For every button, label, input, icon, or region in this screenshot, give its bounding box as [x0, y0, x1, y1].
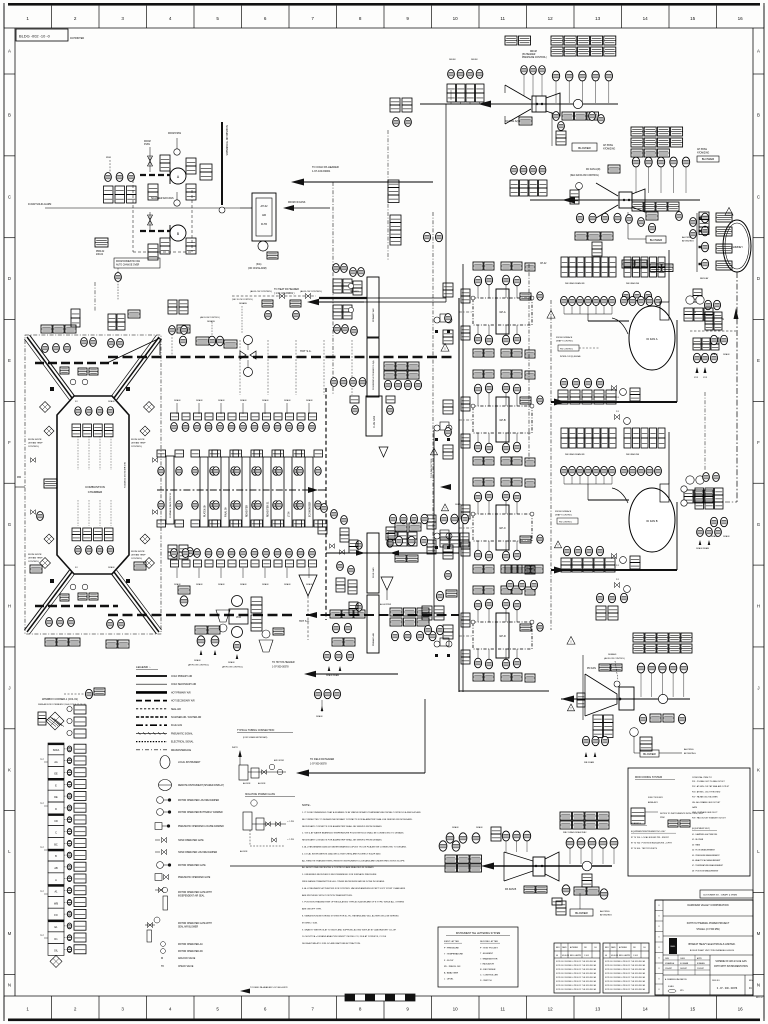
svg-text:(PA HEADER: (PA HEADER: [522, 53, 536, 56]
svg-text:DAMODAR VALLEY CORPORATION: DAMODAR VALLEY CORPORATION: [687, 904, 728, 907]
legend line PNEUMATIC SIGNAL: [136, 732, 167, 734]
right row-letter strip: [752, 28, 754, 996]
svg-text:97 70 760 : POSITION INDICAT: 97 70 760 : POSITION INDICATORS + DPTR: [631, 842, 672, 845]
flue gas upper instruments: [352, 406, 359, 415]
svg-text:13: 13: [595, 1007, 601, 1012]
svg-text:PNEUMATIC SIGNAL: PNEUMATIC SIGNAL: [171, 732, 194, 735]
svg-text:AH PRSG: AH PRSG: [603, 144, 613, 147]
ID fan A outlet duct: [660, 302, 669, 320]
svg-text:C.S.R: C.S.R: [584, 955, 589, 957]
roof line risers: [239, 340, 241, 395]
svg-text:DRAIN: DRAIN: [306, 399, 313, 402]
svg-text:(NO CFM ALARM): (NO CFM ALARM): [248, 267, 267, 270]
svg-text:ARE ON/OFF TYPE.: ARE ON/OFF TYPE.: [302, 908, 322, 911]
svg-text:T : TEMPERATURE: T : TEMPERATURE: [444, 953, 463, 956]
svg-text:S : SWITCH: S : SWITCH: [480, 980, 492, 982]
svg-text:3: 3: [121, 16, 124, 21]
PA fan casing: [533, 857, 545, 876]
legend symbol MOTOR OPERATED GATE: [157, 862, 164, 869]
svg-text:AIR FILTER: AIR FILTER: [274, 759, 285, 762]
svg-text:DRAIN: DRAIN: [240, 399, 247, 402]
svg-text:ECONOMISER: ECONOMISER: [310, 501, 312, 517]
svg-text:P09 : PAS OUTLET STANDB: P09 : PAS OUTLET STANDBY OUTLET: [692, 816, 727, 819]
left riser tags: [390, 215, 401, 223]
svg-text:SEAL AIR: SEAL AIR: [171, 708, 181, 711]
svg-text:6: 6: [264, 1007, 267, 1012]
gas duct instrument cluster upper: [384, 362, 395, 370]
instrument cluster PRI tags top-left: [95, 238, 108, 247]
svg-text:AH DRN: AH DRN: [258, 782, 266, 785]
svg-text:11: 11: [500, 16, 505, 21]
FD fan A duct: [420, 103, 618, 105]
svg-text:SCANNER AIR / IGNITER AIR: SCANNER AIR / IGNITER AIR: [171, 716, 202, 719]
svg-text:FD FAN A(C): FD FAN A(C): [505, 119, 520, 123]
PA fan suction duct: [230, 865, 481, 867]
svg-text:ELECTRICAL SIGNAL: ELECTRICAL SIGNAL: [171, 741, 194, 744]
svg-text:SECOND LETTER: SECOND LETTER: [480, 941, 498, 943]
svg-text:CONTROL): CONTROL): [131, 558, 142, 560]
warning triangles near GP-B: [441, 344, 449, 352]
svg-text:ALL REMOTE TRANSMITTERS, REMOT: ALL REMOTE TRANSMITTERS, REMOTE INSTRUME…: [302, 859, 405, 862]
svg-text:PAT-DAT: PAT-DAT: [700, 277, 709, 280]
svg-text:1: 1: [26, 1007, 29, 1012]
svg-text:NECESSARY CONTACTS FOR ALARM/T: NECESSARY CONTACTS FOR ALARM/TRIP SHALL …: [302, 839, 383, 842]
GP-B top bubbles: [474, 384, 481, 394]
svg-text:DRAIN: DRAIN: [306, 583, 313, 586]
svg-text:TO FIELD PA HEADER: TO FIELD PA HEADER: [310, 758, 335, 761]
revision history table: [554, 943, 600, 993]
compartment instrument: [64, 913, 67, 915]
svg-text:C : CONTROLLER: C : CONTROLLER: [480, 975, 498, 977]
outer border frame: [8, 3, 760, 6]
svg-text:2: 2: [74, 1007, 77, 1012]
GP-D bottom tag grids: [473, 673, 483, 681]
svg-text:F: F: [8, 440, 11, 445]
svg-text:CHKD: CHKD: [680, 958, 686, 960]
hot secondary air heavy line: [108, 356, 456, 358]
svg-text:GATE: GATE: [692, 806, 698, 809]
chimney inlet instruments: [696, 213, 698, 272]
upper area vertical chain line: [432, 212, 434, 553]
svg-text:DRAIN: DRAIN: [240, 583, 247, 586]
air preheater module GP-D: [496, 613, 509, 658]
svg-text:ID FAN B: ID FAN B: [646, 519, 657, 523]
long solid line to alarm: [45, 207, 240, 209]
compartment instrument: [64, 807, 67, 809]
bottom column-number strip: [4, 995, 764, 997]
svg-text:AH PRSG: AH PRSG: [600, 910, 610, 913]
svg-text:G: G: [757, 522, 761, 527]
GP-A right link tags: [520, 293, 531, 300]
svg-text:DESANS: DESANS: [608, 653, 617, 656]
svg-text:3. ALL FAN BEARING AND AT WATE: 3. ALL FAN BEARING AND AT WATER BEARING …: [302, 846, 407, 849]
svg-text:WINDBOX CORNER-1 (COL #1): WINDBOX CORNER-1 (COL #1): [42, 698, 78, 701]
svg-text:1-97-300-00378: 1-97-300-00378: [310, 764, 327, 766]
svg-text:CONTROL): CONTROL): [28, 446, 39, 448]
svg-text:COMCOAL ITEM TO: COMCOAL ITEM TO: [692, 776, 712, 779]
windbox top bubbles: [42, 344, 49, 353]
ID fan B lower tags: [596, 593, 603, 602]
svg-text:6. ALL PNEUMATIC ACTUATORS FOR: 6. ALL PNEUMATIC ACTUATORS FOR CONTROL V…: [302, 887, 406, 890]
svg-text:3 - 97 - 300 - 00376: 3 - 97 - 300 - 00376: [717, 988, 738, 990]
svg-text:9. GRAVITY METER IS AT TO INLE: 9. GRAVITY METER IS AT TO INLET AND SUPP…: [302, 928, 397, 931]
svg-text:ARE PROVIDED WITH POSITION TRA: ARE PROVIDED WITH POSITION TRANSMITTERS.: [302, 894, 353, 897]
ash hopper small units: [216, 610, 230, 622]
svg-text:DRAIN: DRAIN: [452, 826, 459, 829]
svg-text:1-97-300-00378: 1-97-300-00378: [272, 667, 289, 669]
svg-text:NOTE NO. REVISED & PRGS DT. TH: NOTE NO. REVISED & PRGS DT. THE DRG REV …: [556, 988, 597, 991]
svg-text:TO FEED PA HEADER 1-97-300-00: TO FEED PA HEADER 1-97-300-00378: [250, 986, 288, 989]
svg-text:FO: FO: [75, 401, 78, 403]
svg-text:REMOTE INSTRUMENT (SHARED DISP: REMOTE INSTRUMENT (SHARED DISPLAY): [178, 784, 224, 787]
svg-text:BHARAT HEAVY ELECTRICALS LIMIT: BHARAT HEAVY ELECTRICALS LIMITED.: [689, 943, 736, 946]
svg-text:4: 4: [169, 1007, 172, 1012]
svg-text:PNEUMATIC OPERATED LOUVRE DAMP: PNEUMATIC OPERATED LOUVRE DAMPER: [178, 825, 224, 828]
svg-text:5. UNDERNED RECEIVER IS RECOMM: 5. UNDERNED RECEIVER IS RECOMMENDED FOR …: [302, 873, 377, 876]
PA fan diffuser: [545, 852, 559, 881]
svg-text:DRAIN DRAIN: DRAIN DRAIN: [696, 547, 710, 550]
FD fan B tag rows: [631, 127, 643, 136]
backpass bottom instrument row: [171, 549, 178, 558]
BHEL logo: [669, 938, 677, 954]
title block number row: [709, 975, 711, 995]
PA fan lower cluster: [562, 885, 570, 895]
svg-text:H: H: [8, 604, 11, 609]
svg-text:SIMILAR FOR CORNERS 2,3&4 (COL: SIMILAR FOR CORNERS 2,3&4 (COLS #2,#3,#4…: [38, 703, 86, 706]
svg-text:10/05/97: 10/05/97: [680, 968, 687, 970]
backpass bottom drain labels: [176, 568, 178, 578]
svg-text:I : TRANSMITTER: I : TRANSMITTER: [480, 957, 498, 960]
compartment instrument: [64, 772, 67, 774]
svg-text:A: A: [8, 49, 11, 54]
svg-text:REHEATER: REHEATER: [246, 505, 249, 517]
svg-text:B: B: [757, 113, 760, 118]
svg-text:L : LEVEL: L : LEVEL: [444, 979, 454, 981]
ID fan B lower bubble row: [554, 541, 561, 548]
GP-D top tag grids: [473, 586, 483, 594]
svg-text:TO HEAT PA HEADER: TO HEAT PA HEADER: [274, 288, 299, 291]
svg-text:DATE: DATE: [611, 946, 616, 949]
svg-text:TK: TK: [161, 965, 164, 968]
svg-text:J: J: [757, 685, 759, 690]
windbox top tags: [41, 325, 52, 333]
svg-text:NOTE NO. REVISED & PRGS DT. TH: NOTE NO. REVISED & PRGS DT. THE DRG REV …: [605, 980, 646, 983]
svg-text:A : ANALYSER: A : ANALYSER: [444, 971, 459, 974]
compartment instrument: [64, 866, 67, 868]
svg-text:I : INDICATOR: I : INDICATOR: [480, 963, 494, 966]
svg-text:DRG NO.: DRG NO.: [712, 980, 721, 982]
fan A tags: [160, 155, 170, 163]
svg-text:4. LOCAL INSTRUMENTS (GAUGES &: 4. LOCAL INSTRUMENTS (GAUGES & SWITCHES)…: [302, 852, 381, 855]
svg-text:1. IT IS RECOMMENDED THAT A N: 1. IT IS RECOMMENDED THAT A NUMBER OF AT…: [302, 811, 421, 814]
burner nozzle bubbles top inside: [75, 407, 81, 416]
legend line SEAL AIR: [136, 708, 167, 710]
FD fan B diffuser: [632, 189, 645, 212]
svg-text:OIL: OIL: [54, 950, 59, 953]
FD fan B left cluster: [511, 166, 518, 175]
FD fan A bubble row: [552, 71, 559, 81]
svg-text:(AH FLOW CONTROL): (AH FLOW CONTROL): [300, 290, 322, 293]
legend symbol remote instrument: [159, 780, 172, 791]
upper corner tag rows: [74, 705, 86, 714]
svg-text:K: K: [757, 767, 760, 772]
svg-text:21/05/97: 21/05/97: [697, 968, 704, 970]
compartment instrument: [64, 795, 67, 797]
GP-D top bubbles: [474, 600, 481, 610]
svg-text:PD : PRESS. DIF: PD : PRESS. DIF: [444, 966, 461, 968]
corner stack bottom hopper: [50, 955, 62, 967]
svg-text:8: 8: [359, 16, 362, 21]
svg-text:!: !: [434, 451, 435, 455]
FD fan B bubbles: [632, 157, 639, 167]
blower box B: [646, 236, 666, 243]
regenerative preheater lower assembly: [367, 533, 379, 593]
svg-text:FROM IGNTR: FROM IGNTR: [131, 439, 145, 441]
diagonal junction dots: [50, 387, 54, 391]
svg-text:!: !: [445, 347, 446, 351]
svg-text:FLUE GAS: FLUE GAS: [372, 567, 375, 578]
legend line COLD SECONDARY AIR: [136, 683, 167, 685]
svg-text:15: 15: [690, 16, 696, 21]
PA fan discharge bubbles: [566, 838, 574, 848]
ID fan A bypass dampers: [611, 385, 616, 390]
svg-text:APPD: APPD: [697, 957, 703, 960]
GP-C top bubbles: [474, 492, 481, 502]
svg-text:02 : BLOWER: 02 : BLOWER: [692, 839, 704, 841]
svg-text:DRUM: DRUM: [449, 59, 456, 61]
svg-text:AIRLOCK VALVE: AIRLOCK VALVE: [178, 957, 196, 960]
svg-text:DRAIN: DRAIN: [723, 353, 730, 356]
svg-text:FUNCTION KEY: FUNCTION KEY: [648, 797, 664, 799]
svg-text:DESANS: DESANS: [207, 320, 216, 323]
svg-text:NOTE NO. REVISED & PRGS DT. TH: NOTE NO. REVISED & PRGS DT. THE DRG REV …: [556, 964, 597, 967]
svg-text:DRUM: DRUM: [530, 51, 537, 53]
svg-text:PATH WITH INSTRUMENTATION: PATH WITH INSTRUMENTATION: [714, 965, 748, 968]
PD fan cone: [585, 674, 617, 716]
svg-text:DRAIN/INTERFACE: DRAIN/INTERFACE: [171, 749, 192, 752]
legend symbol PNEUMATIC OPERATED LOUVRE DAMPER: [155, 823, 162, 830]
svg-text:GN9 : FURNACE GEN.: GN9 : FURNACE GEN. DUCT: [692, 811, 718, 814]
ID fan B discharge heavy duct: [551, 569, 677, 571]
from FD fans line: [240, 207, 252, 209]
svg-text:D: D: [8, 276, 11, 281]
svg-text:AA: AA: [54, 761, 58, 764]
svg-text:GP-A: GP-A: [499, 310, 506, 314]
svg-text:BOILER PLANT UNIT: TIRUCHIRAPA: BOILER PLANT UNIT: TIRUCHIRAPALLI-620014: [690, 949, 735, 952]
burner tag pairs top inside: [72, 424, 81, 430]
svg-text:DE: DE: [54, 796, 58, 799]
PD fan left tag grid: [593, 715, 603, 723]
GP-A side tags: [461, 289, 470, 296]
PD fan blower box: [630, 728, 639, 737]
svg-text:NECESSARY CONTACTS FOR ALARM/T: NECESSARY CONTACTS FOR ALARM/TRIP SHALL …: [302, 825, 383, 828]
backpass main gas chain line: [157, 489, 311, 491]
legend symbol HAND OPERATED LOUVRE DAMPER: [155, 851, 160, 853]
svg-text:TO ID FAN SUCTION: TO ID FAN SUCTION: [430, 458, 433, 478]
svg-text:13: 13: [595, 16, 601, 21]
riser tags: [200, 164, 212, 172]
GP-C bypass chain loop: [473, 514, 532, 541]
GP-D bypass chain loop: [473, 622, 532, 649]
svg-text:BC: BC: [54, 843, 58, 846]
left-edge tag column: [443, 283, 453, 290]
legend line FLUE GAS: [136, 724, 167, 726]
title block owner row: [663, 915, 753, 917]
svg-text:C: C: [757, 194, 760, 199]
svg-text:PRM: PRM: [660, 817, 665, 819]
svg-text:12: 12: [548, 1007, 554, 1012]
GP-D bottom bubbles: [474, 658, 481, 668]
svg-text:3: 3: [121, 1007, 124, 1012]
svg-text:GN : ALLOWABLE GEN OUTLET: GN : ALLOWABLE GEN OUTLET: [692, 801, 721, 804]
svg-text:FROM: FROM: [144, 141, 151, 143]
svg-text:CP-42: CP-42: [540, 263, 547, 265]
title block left vertical strip: [655, 899, 663, 901]
hot SA line instruments: [177, 325, 190, 333]
chimney riser chain line: [736, 272, 738, 502]
PLATEN SH inlet/outlet instruments: [192, 467, 198, 476]
burner nozzle bubbles bottom inside: [75, 546, 81, 555]
svg-text:MOTOR OPERATED GATE: MOTOR OPERATED GATE: [178, 864, 206, 867]
svg-text:M: M: [161, 957, 163, 960]
svg-text:INSTRUMENT TAG LETTERING SYSTE: INSTRUMENT TAG LETTERING SYSTEM: [456, 932, 500, 935]
burner tilt cluster below windbox: [195, 626, 207, 634]
svg-text:NOTE NO. REVISED & PRGS DT. TH: NOTE NO. REVISED & PRGS DT. THE DRG REV …: [556, 972, 597, 975]
title block project rows: [663, 935, 753, 937]
PA fan left cluster tags: [445, 855, 457, 863]
drawing number box: [16, 29, 68, 41]
legend line ELECTRICAL SIGNAL: [136, 741, 167, 743]
svg-text:R : RECORDER: R : RECORDER: [480, 969, 496, 971]
svg-text:DESANS: DESANS: [239, 302, 248, 305]
spray water cluster lower: [337, 562, 344, 571]
svg-text:DRAIN: DRAIN: [711, 353, 718, 356]
svg-text:FIRST LETTER: FIRST LETTER: [444, 941, 459, 943]
svg-text:SOFA: SOFA: [53, 749, 60, 752]
GP-A top bubbles: [474, 276, 481, 286]
svg-text:MOD CODING SYSTEM: MOD CODING SYSTEM: [635, 776, 662, 779]
furnace right upper tags: [168, 300, 177, 307]
svg-text:FROM IGNTR: FROM IGNTR: [28, 439, 42, 441]
svg-text:REGENERATIVE PREHEATER G-D(A): REGENERATIVE PREHEATER G-D(A): [372, 360, 375, 390]
air preheater module GP-A: [496, 289, 509, 334]
svg-text:REV. & APPR: REV. & APPR: [570, 954, 582, 957]
svg-text:PLATEN SH: PLATEN SH: [204, 504, 207, 517]
svg-text:A. DRAWING VALIDATION: A. DRAWING VALIDATION: [665, 978, 687, 981]
svg-text:!: !: [571, 640, 572, 644]
legend miscellaneous small symbols: [161, 942, 166, 947]
svg-text:04 : FLOW MEASUREMENT: 04 : FLOW MEASUREMENT: [692, 849, 716, 852]
svg-text:MOTOR OPERATED GATE WITH: MOTOR OPERATED GATE WITH: [178, 891, 212, 894]
svg-text:FO: FO: [54, 914, 57, 917]
GP-B top tag grids: [473, 370, 483, 378]
svg-text:V.RAMESH: V.RAMESH: [665, 962, 675, 965]
svg-text:DRAFT CONTROL: DRAFT CONTROL: [556, 340, 574, 343]
hot SA booster fan: [240, 351, 246, 359]
burner tag pairs bottom inside: [72, 528, 81, 534]
svg-text:16: 16: [738, 16, 744, 21]
corner firing diamond: [46, 712, 64, 730]
svg-text:F: F: [757, 440, 760, 445]
windbox left inlet stubs: [15, 486, 25, 488]
FD fan A flow element: [573, 99, 582, 108]
svg-text:DRAIN: DRAIN: [284, 583, 291, 586]
svg-text:CD: CD: [54, 820, 58, 823]
svg-text:7. POSITION TRANSMITTER OF REG: 7. POSITION TRANSMITTER OF REGULATING TY…: [302, 901, 405, 904]
svg-text:BLOWER: BLOWER: [702, 157, 715, 161]
chimney: [723, 220, 751, 272]
svg-text:ISOLATING POWER CLASS: ISOLATING POWER CLASS: [245, 793, 275, 796]
svg-text:05.06.98: 05.06.98: [611, 955, 618, 957]
flue gas outlet cluster: [389, 514, 396, 523]
svg-text:NOTE NO. REVISED & PRGS DT. TH: NOTE NO. REVISED & PRGS DT. THE DRG REV …: [605, 984, 646, 987]
svg-text:SCANNER AIR FANS: SCANNER AIR FANS: [151, 197, 174, 200]
ID fan B top tag stacks: [561, 428, 568, 438]
svg-text:BY BHEL / SUB.: BY BHEL / SUB.: [302, 922, 318, 924]
isolating power class diagram: [251, 800, 257, 806]
svg-text:(STEAM TEMP: (STEAM TEMP: [28, 557, 43, 560]
svg-text:NOTE NO. REVISED & PRGS DT. TH: NOTE NO. REVISED & PRGS DT. THE DRG REV …: [605, 960, 646, 963]
svg-text:!: !: [729, 211, 730, 215]
GP-A top tag grids: [473, 262, 483, 270]
AH flow control dashed line: [232, 295, 316, 297]
svg-text:AH DRN: AH DRN: [243, 782, 251, 785]
svg-text:MOTOR OPERATED LOUVRE DAMPER: MOTOR OPERATED LOUVRE DAMPER: [178, 799, 219, 802]
compartment instrument: [64, 854, 67, 856]
ID fan B inlet manifold: [564, 483, 612, 485]
PD fan duct: [561, 698, 690, 700]
windbox bottom heavy dashed header: [35, 605, 118, 608]
svg-text:04: 04: [556, 955, 558, 957]
svg-text:NOTE NO. REVISED & PRGS DT. TH: NOTE NO. REVISED & PRGS DT. THE DRG REV …: [556, 984, 597, 987]
svg-text:08 : POSITION MEASUREMENT: 08 : POSITION MEASUREMENT: [692, 869, 719, 872]
ID fan A inlet manifold: [564, 313, 612, 315]
svg-text:DRAFT CONTROL: DRAFT CONTROL: [555, 514, 573, 517]
svg-text:FO: FO: [75, 567, 78, 569]
svg-text:AH PRSG: AH PRSG: [684, 748, 694, 751]
backpass vertical boundary dashed line: [325, 388, 327, 620]
svg-text:!: !: [558, 544, 559, 548]
compartment instrument: [64, 842, 67, 844]
svg-text:WIDE RANGE TRANSMITTER. ALL OT: WIDE RANGE TRANSMITTER. ALL OTHER RECEIV…: [302, 880, 385, 883]
hot secondary air lower heavy line: [108, 614, 296, 616]
svg-text:4: 4: [169, 16, 172, 21]
svg-text:ALTERED: ALTERED: [570, 946, 579, 949]
svg-text:SEAL AIR BLOWER: SEAL AIR BLOWER: [178, 926, 199, 929]
svg-text:04 PRINTED: 04 PRINTED: [70, 37, 84, 40]
svg-text:FSSS: FSSS: [144, 144, 150, 146]
svg-text:(STEAM TEMP: (STEAM TEMP: [131, 554, 146, 557]
svg-text:FROM DOMESTIC FAN: FROM DOMESTIC FAN: [116, 260, 140, 263]
svg-text:PD FAN: PD FAN: [587, 667, 596, 670]
svg-text:TYPICAL TUBING CONNECTION: TYPICAL TUBING CONNECTION: [237, 729, 274, 732]
svg-text:AH HOPPER: AH HOPPER: [380, 603, 392, 606]
svg-text:N: N: [8, 983, 11, 988]
svg-text:MOTOR OPERATED BUTTERFLY DAMPE: MOTOR OPERATED BUTTERFLY DAMPER: [178, 811, 223, 814]
graphical scale bar: [345, 994, 415, 1001]
svg-text:HOT S.A.: HOT S.A.: [300, 349, 312, 353]
svg-text:(AH FLOW CONTROL): (AH FLOW CONTROL): [250, 290, 272, 293]
svg-text:2: 2: [74, 16, 77, 21]
svg-text:E: E: [8, 358, 11, 363]
ID fan A discharge heavy duct: [551, 401, 677, 403]
warning triangle PD fan: [567, 704, 574, 711]
svg-text:ATOMIZING: ATOMIZING: [684, 752, 696, 755]
GP-A bypass chain loop: [473, 298, 532, 325]
FD fan B casing: [619, 192, 632, 208]
svg-text:PID CONTROL: PID CONTROL: [559, 522, 572, 524]
svg-text:BLDG -002 -10 -0: BLDG -002 -10 -0: [19, 34, 51, 39]
